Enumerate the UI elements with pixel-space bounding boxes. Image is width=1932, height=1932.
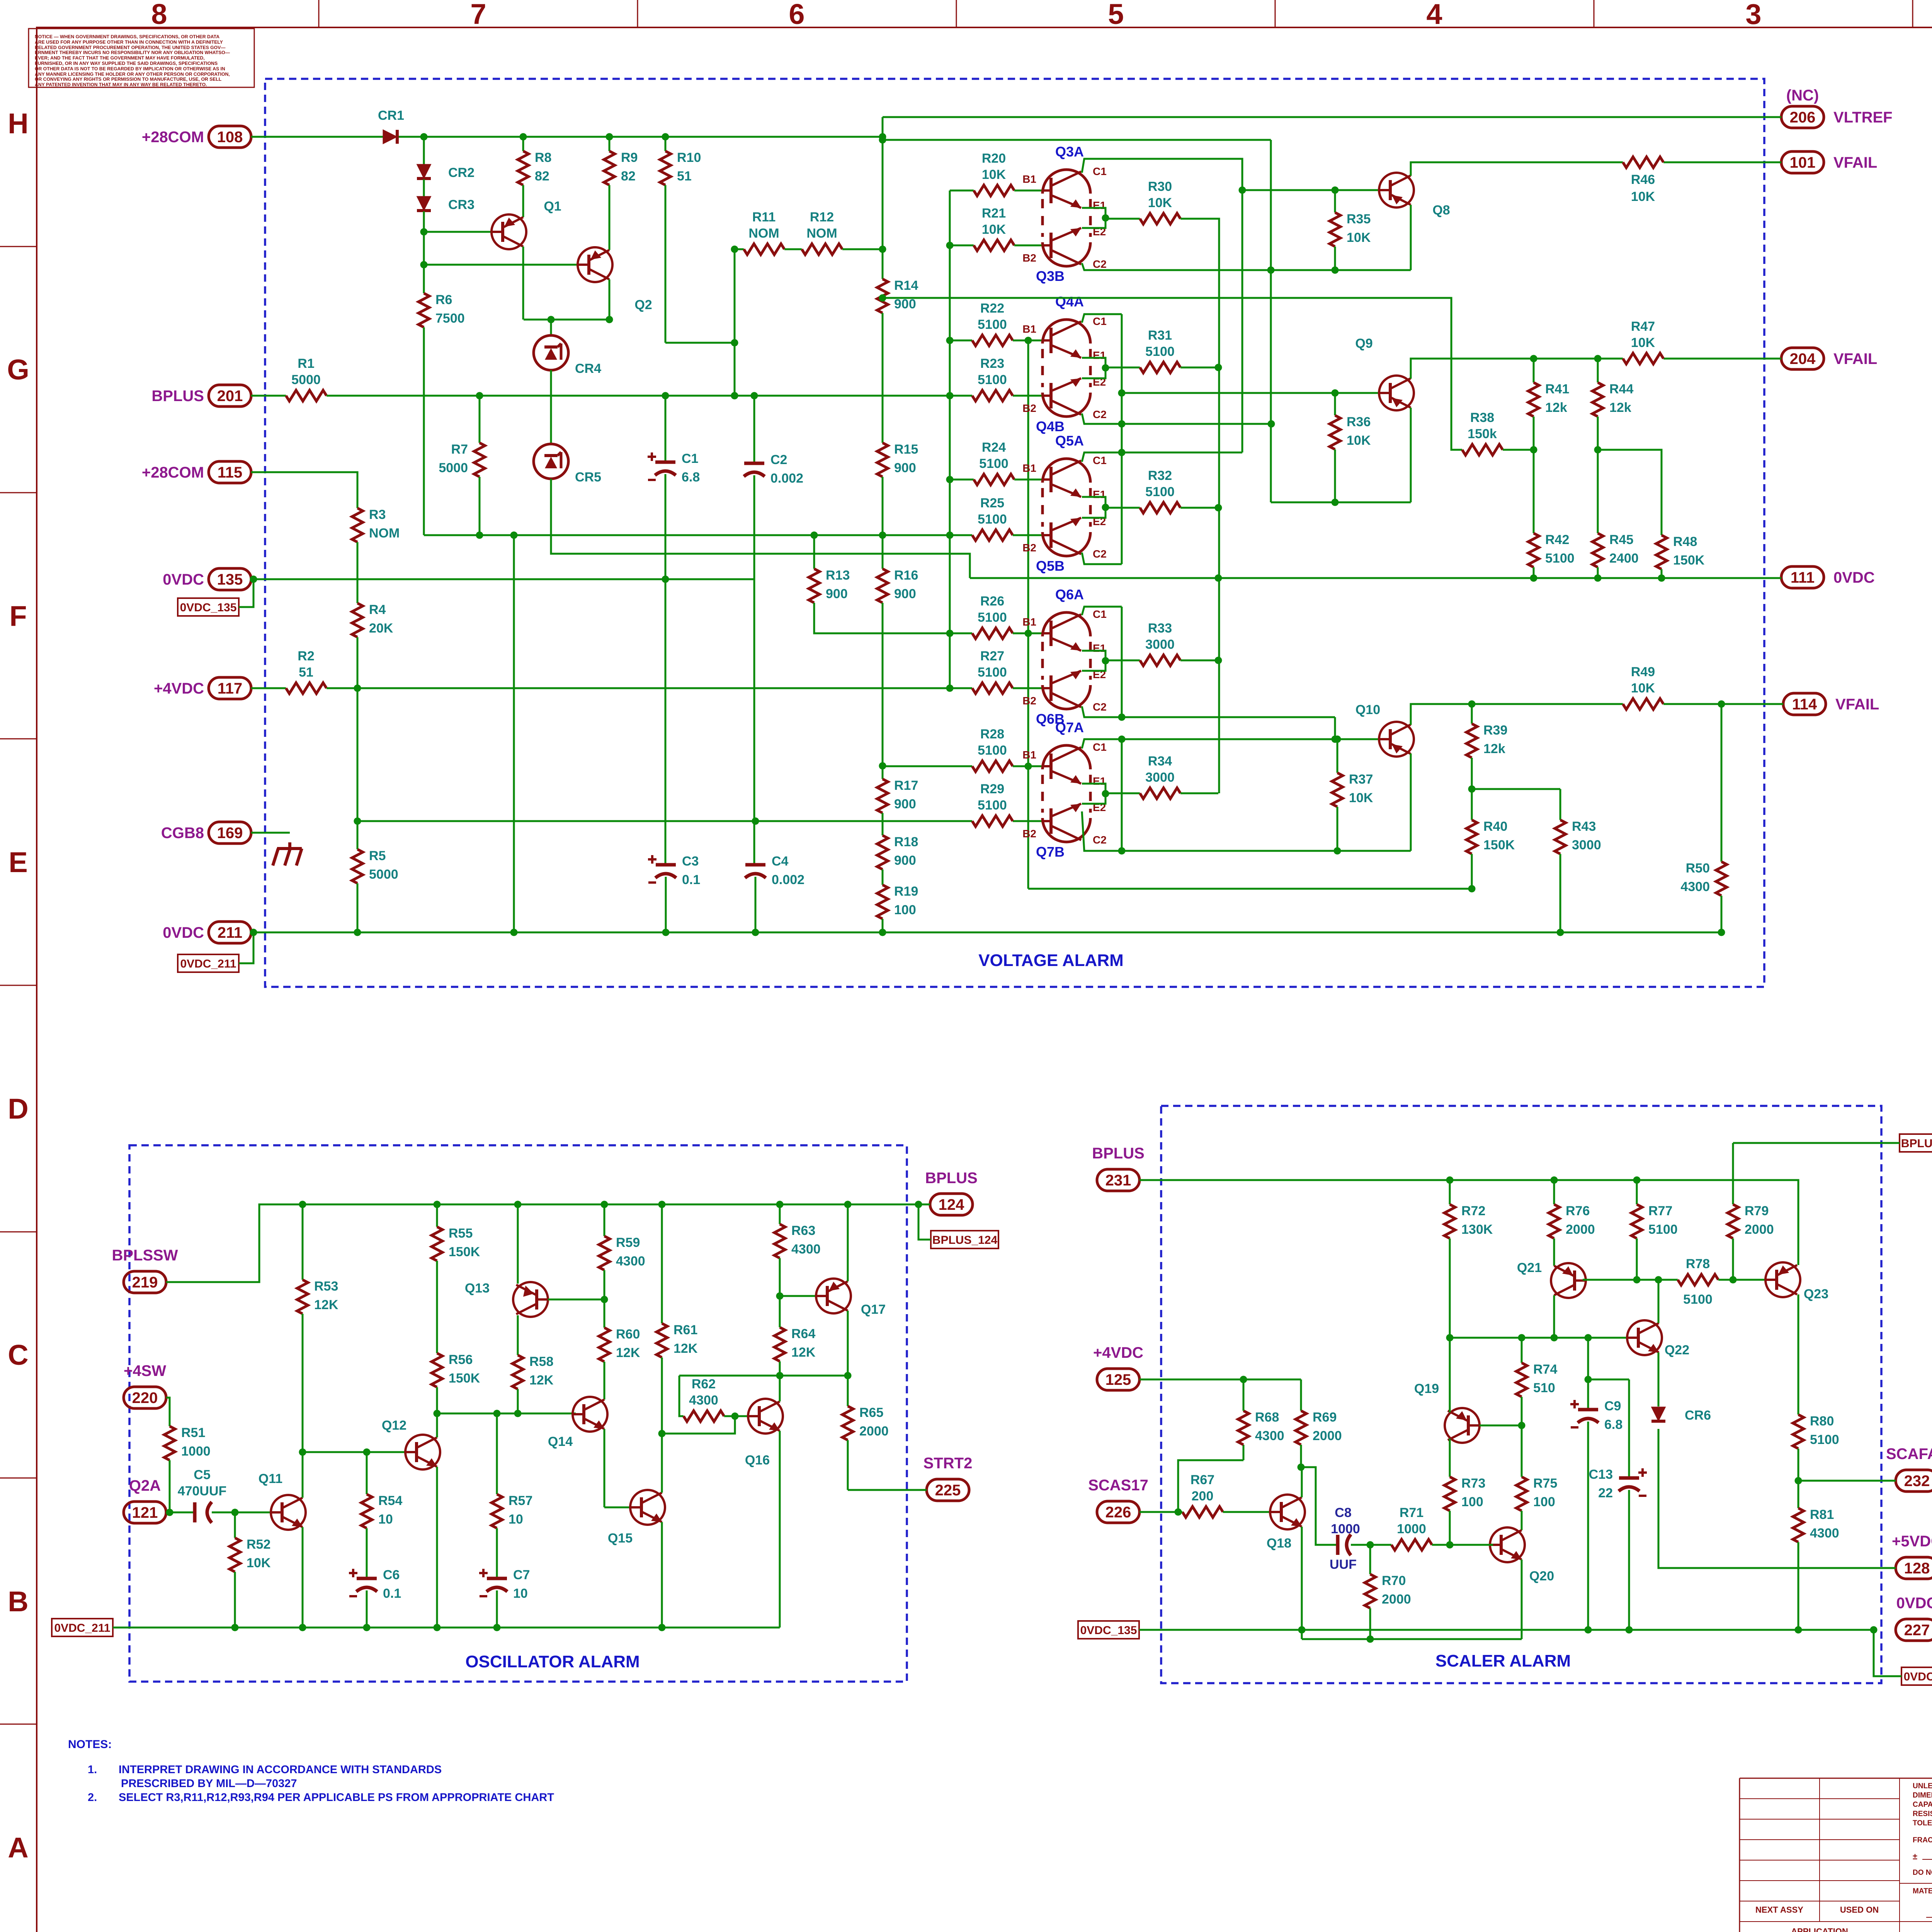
svg-text:20K: 20K [369, 621, 393, 636]
wire [1636, 1238, 1638, 1280]
junction [1175, 1509, 1182, 1516]
svg-text:R27: R27 [980, 649, 1004, 663]
junction [1367, 1636, 1374, 1643]
junction [1655, 1276, 1662, 1284]
svg-text:VOLTAGE ALARM: VOLTAGE ALARM [978, 951, 1124, 970]
svg-text:232: 232 [1904, 1473, 1930, 1490]
wire [1636, 1180, 1638, 1204]
svg-text:+28COM: +28COM [142, 464, 204, 481]
resistor R46 [1623, 157, 1663, 168]
svg-text:R77: R77 [1648, 1204, 1672, 1218]
wire [1013, 765, 1044, 767]
wire [1798, 1264, 1799, 1266]
wire [496, 1413, 498, 1494]
transistor Q11 [271, 1495, 306, 1530]
resistor R36 [1330, 415, 1340, 449]
transistor Q23 [1765, 1262, 1800, 1297]
svg-text:R72: R72 [1461, 1204, 1485, 1218]
svg-text:82: 82 [535, 169, 549, 184]
svg-text:R4: R4 [369, 602, 386, 617]
wire to Q8 base [1242, 189, 1378, 191]
svg-text:10K: 10K [1349, 791, 1373, 805]
svg-text:0VDC: 0VDC [163, 924, 204, 941]
wire [366, 1590, 368, 1628]
svg-text:DO NOT SCALE THIS DRAWING: DO NOT SCALE THIS DRAWING [1913, 1869, 1932, 1877]
svg-text:NOTES:: NOTES: [68, 1738, 112, 1751]
junction [731, 339, 738, 347]
wire [847, 1376, 849, 1406]
wire [423, 137, 425, 165]
resistor R30 [1140, 213, 1180, 224]
wire [1369, 1608, 1371, 1639]
wire R29 row [357, 820, 972, 822]
wire Q14 emitter [604, 1429, 605, 1507]
svg-text:R2: R2 [298, 649, 314, 663]
svg-text:CAPACITOR VALUES ARE IN uF: CAPACITOR VALUES ARE IN uF [1913, 1801, 1932, 1809]
svg-text:0VDC_211: 0VDC_211 [180, 957, 236, 970]
svg-text:R53: R53 [314, 1279, 338, 1294]
resistor R17 [877, 779, 888, 813]
wire BPLUS row [1139, 1180, 1798, 1265]
junction [946, 685, 954, 692]
svg-text:211: 211 [218, 924, 243, 941]
svg-text:E1: E1 [1093, 642, 1106, 654]
svg-text:5100: 5100 [1145, 344, 1175, 359]
wire [423, 179, 425, 197]
junction [1468, 701, 1476, 708]
resistor R13 [809, 569, 820, 603]
connector pad 204 [1781, 348, 1824, 369]
junction [1332, 267, 1339, 274]
wire [950, 479, 974, 481]
svg-text:219: 219 [132, 1274, 158, 1291]
wire Q7 C1 to Q10 base [1082, 739, 1378, 748]
svg-text:226: 226 [1105, 1504, 1131, 1521]
junction [250, 929, 257, 936]
wire [1301, 1630, 1303, 1639]
svg-text:BPLUS_124: BPLUS_124 [1901, 1137, 1932, 1150]
wire [1533, 359, 1535, 383]
svg-text:R8: R8 [535, 150, 551, 165]
wire [1471, 704, 1473, 724]
junction [1118, 736, 1126, 743]
transistor Q2 [578, 247, 612, 282]
svg-text:CR3: CR3 [448, 197, 474, 212]
resistor R6 [418, 293, 429, 327]
junction [1557, 929, 1564, 936]
wire Q18 emitter [1301, 1527, 1303, 1630]
transistor Q18 [1270, 1495, 1305, 1529]
svg-text:R47: R47 [1631, 319, 1655, 334]
svg-text:R60: R60 [616, 1327, 640, 1342]
junction [1118, 714, 1126, 721]
wire Q4 C2 [1082, 413, 1271, 424]
svg-text:E1: E1 [1093, 199, 1106, 211]
wire [1658, 1429, 1680, 1568]
svg-text:150K: 150K [449, 1371, 480, 1386]
svg-text:Q5A: Q5A [1055, 433, 1084, 449]
wire +28COM 115 [251, 472, 357, 508]
svg-text:R26: R26 [980, 594, 1004, 609]
wire [1180, 367, 1218, 369]
svg-text:Q2A: Q2A [129, 1477, 161, 1494]
svg-text:C3: C3 [682, 854, 699, 869]
wire [1471, 854, 1473, 889]
zone tick left [0, 738, 37, 740]
wire [1180, 793, 1218, 794]
svg-text:R65: R65 [859, 1405, 883, 1420]
svg-text:R23: R23 [980, 356, 1004, 371]
wire [779, 1204, 781, 1224]
svg-text:F: F [9, 600, 27, 632]
svg-text:R7: R7 [451, 442, 468, 457]
svg-text:4300: 4300 [1680, 879, 1710, 894]
svg-text:Q10: Q10 [1355, 702, 1380, 717]
transistor Q9 [1379, 376, 1414, 410]
junction [752, 929, 759, 936]
junction [1518, 1334, 1526, 1342]
wire [1721, 896, 1723, 932]
svg-text:121: 121 [132, 1504, 158, 1521]
svg-text:0.1: 0.1 [682, 872, 700, 887]
resistor R53 [297, 1280, 308, 1314]
svg-text:227: 227 [1904, 1622, 1930, 1639]
wire [496, 1590, 498, 1628]
svg-text:R22: R22 [980, 301, 1004, 316]
wire [755, 877, 757, 932]
wire [1521, 1397, 1523, 1425]
svg-text:6: 6 [789, 0, 804, 30]
resistor R10 [660, 151, 671, 185]
svg-text:6.8: 6.8 [1604, 1417, 1622, 1432]
wire [1013, 820, 1044, 822]
capacitor C8 [1336, 1535, 1340, 1555]
junction [946, 392, 954, 400]
wire 0VDC rail [251, 932, 1721, 934]
junction [776, 1201, 784, 1208]
wire BPLUS rail [166, 1204, 930, 1282]
wire Q19 emitter riser [1449, 1338, 1451, 1412]
svg-text:5100: 5100 [1648, 1222, 1678, 1237]
svg-text:R45: R45 [1609, 532, 1633, 547]
oscillator alarm block boundary [129, 1145, 907, 1682]
svg-text:OR CONVEYING ANY RIGHTS OR PER: OR CONVEYING ANY RIGHTS OR PERMISSION TO… [35, 77, 222, 82]
resistor R24 [974, 474, 1014, 485]
svg-text:VFAIL: VFAIL [1835, 696, 1879, 713]
svg-text:R30: R30 [1148, 179, 1172, 194]
junction [1215, 364, 1222, 371]
dual transistor Q6A/Q6B [1043, 612, 1090, 636]
wire [724, 1415, 751, 1417]
wire [423, 327, 425, 535]
junction [548, 316, 555, 323]
wire [882, 869, 884, 885]
svg-text:R35: R35 [1347, 212, 1371, 226]
wire Q2 base [424, 264, 578, 266]
wire Q18 collector [1301, 1467, 1303, 1497]
svg-text:CR2: CR2 [448, 165, 474, 180]
junction [363, 1449, 371, 1456]
junction [776, 1372, 784, 1379]
svg-text:R46: R46 [1631, 172, 1655, 187]
junction [434, 1201, 441, 1208]
resistor R32 [1140, 502, 1180, 513]
svg-text:E1: E1 [1093, 349, 1106, 361]
transistor Q10 [1379, 722, 1414, 757]
svg-text:+4SW: +4SW [124, 1362, 166, 1379]
wire [1449, 1511, 1451, 1545]
svg-text:A: A [8, 1832, 28, 1864]
svg-text:BPLUS: BPLUS [151, 388, 204, 405]
svg-text:10: 10 [378, 1512, 393, 1527]
svg-text:R20: R20 [982, 151, 1006, 166]
svg-text:R74: R74 [1533, 1362, 1557, 1377]
wire [1270, 140, 1272, 502]
svg-text:Q23: Q23 [1804, 1287, 1828, 1301]
diode CR3 [417, 197, 430, 210]
svg-text:ERNMENT THEREBY INCURS NO RESP: ERNMENT THEREBY INCURS NO RESPONSIBILITY… [35, 50, 230, 55]
junction [354, 818, 361, 825]
wire Q1 base [424, 231, 493, 233]
resistor R1 [286, 390, 327, 401]
svg-text:201: 201 [217, 388, 243, 405]
svg-text:B2: B2 [1022, 402, 1036, 414]
wire +4SW [166, 1398, 170, 1426]
junction [731, 392, 738, 400]
svg-text:7: 7 [470, 0, 486, 30]
svg-text:D: D [8, 1093, 28, 1125]
resistor R37 [1332, 773, 1343, 807]
svg-text:4300: 4300 [791, 1242, 821, 1257]
wire Q3 C2 row [1082, 263, 1411, 270]
svg-text:B1: B1 [1022, 462, 1036, 474]
svg-text:CR5: CR5 [575, 470, 601, 485]
svg-text:R38: R38 [1470, 410, 1494, 425]
svg-text:900: 900 [894, 797, 916, 811]
wire [1105, 367, 1140, 369]
junction [946, 630, 954, 637]
svg-text:R44: R44 [1609, 382, 1633, 396]
svg-text:3000: 3000 [1145, 637, 1175, 652]
svg-text:150k: 150k [1468, 427, 1497, 441]
capacitor C7 [487, 1577, 507, 1580]
svg-text:CR1: CR1 [378, 108, 404, 123]
transistor Q13 (PNP) [513, 1282, 548, 1317]
svg-text:4300: 4300 [1810, 1526, 1839, 1541]
svg-text:R69: R69 [1313, 1410, 1337, 1425]
capacitor C2 [744, 462, 764, 465]
svg-text:B: B [8, 1585, 28, 1617]
junction [1730, 1276, 1737, 1284]
svg-text:R33: R33 [1148, 621, 1172, 636]
svg-text:10K: 10K [1631, 681, 1655, 696]
wire emitters Q5A/Q5B [1082, 497, 1105, 518]
resistor R72 [1444, 1204, 1455, 1238]
connector pad 227 [1896, 1619, 1932, 1641]
dual transistor Q4A/Q4B [1043, 320, 1090, 344]
wire [950, 633, 972, 634]
resistor R63 [774, 1224, 785, 1258]
svg-text:R28: R28 [980, 727, 1004, 742]
wire [679, 1376, 684, 1416]
svg-text:1000: 1000 [1331, 1522, 1360, 1536]
svg-text:8: 8 [151, 0, 167, 30]
svg-text:USED ON: USED ON [1840, 1905, 1879, 1915]
svg-text:R81: R81 [1810, 1507, 1834, 1522]
wire [1105, 507, 1140, 509]
global label 0VDC_211 [52, 1619, 113, 1636]
junction [662, 576, 669, 583]
resistor R42 [1528, 533, 1539, 567]
wire VLTREF row [883, 116, 1781, 118]
junction [946, 337, 954, 344]
junction [520, 133, 527, 141]
government notice box [29, 29, 254, 87]
junction [250, 576, 257, 583]
wire Q20 emitter [1521, 1560, 1523, 1639]
svg-text:R32: R32 [1148, 468, 1172, 483]
junction [731, 392, 738, 400]
junction [1585, 1626, 1592, 1634]
wire [779, 1361, 781, 1376]
wire [1628, 1379, 1630, 1478]
resistor R31 [1140, 362, 1180, 373]
dual transistor Q5A/Q5B [1043, 459, 1090, 483]
svg-text:B1: B1 [1022, 616, 1036, 628]
svg-text:E1: E1 [1093, 775, 1106, 787]
svg-text:0VDC_135: 0VDC_135 [1080, 1624, 1137, 1637]
svg-text:0.1: 0.1 [383, 1586, 401, 1601]
junction [662, 392, 669, 400]
wire [1798, 1449, 1799, 1481]
wire Q11 emitter [302, 1527, 304, 1628]
connector pad 115 [209, 461, 251, 483]
svg-text:R61: R61 [673, 1323, 697, 1337]
global label 0VDC_135 [178, 598, 239, 616]
connector pad 225 [927, 1479, 969, 1501]
transistor Q22 [1627, 1320, 1662, 1355]
wire CR5 to bus [551, 479, 970, 578]
wire [1334, 449, 1336, 502]
svg-text:100: 100 [894, 903, 916, 917]
svg-text:R49: R49 [1631, 665, 1655, 679]
svg-text:FURNISHED, OR IN ANY WAY SUPPL: FURNISHED, OR IN ANY WAY SUPPLIED THE SA… [35, 61, 218, 66]
svg-text:R5: R5 [369, 849, 386, 863]
svg-text:5100: 5100 [978, 665, 1007, 680]
wire [1663, 358, 1781, 360]
junction [751, 392, 758, 400]
junction [1468, 786, 1476, 793]
svg-text:B2: B2 [1022, 542, 1036, 554]
connector pad 111 [1781, 566, 1824, 588]
junction [1334, 736, 1341, 743]
wire [357, 688, 359, 849]
svg-text:C2: C2 [1093, 701, 1107, 713]
wire [1587, 1422, 1589, 1630]
svg-text:0VDC_135: 0VDC_135 [180, 601, 237, 614]
svg-text:BPLUS_124: BPLUS_124 [932, 1234, 998, 1247]
svg-text:BPLSSW: BPLSSW [112, 1247, 178, 1264]
resistor R3 [352, 508, 363, 542]
wire [437, 1413, 576, 1415]
wire emitters Q3A/Q3B [1082, 208, 1105, 228]
svg-text:2000: 2000 [1382, 1592, 1411, 1607]
svg-text:Q16: Q16 [745, 1453, 770, 1468]
connector pad 121 [124, 1502, 166, 1523]
junction [879, 762, 886, 770]
wire [753, 475, 755, 865]
capacitor C13 [1619, 1476, 1639, 1480]
wire [1450, 1337, 1630, 1339]
svg-text:H: H [8, 107, 28, 139]
resistor R5 [352, 849, 363, 883]
svg-text:C1: C1 [1093, 315, 1107, 327]
wire [1521, 1425, 1523, 1477]
svg-text:R24: R24 [982, 440, 1006, 455]
svg-text:R34: R34 [1148, 754, 1172, 769]
wire [479, 396, 481, 443]
resistor R65 [842, 1406, 853, 1440]
wire [1588, 1379, 1629, 1381]
wire +28COM 108 [251, 136, 384, 138]
svg-text:R43: R43 [1572, 819, 1596, 834]
svg-text:R11: R11 [752, 210, 776, 224]
junction [731, 246, 738, 253]
svg-text:G: G [7, 354, 29, 386]
zener diode CR5 [534, 444, 568, 479]
wire Q1 emitter [522, 247, 524, 320]
svg-text:204: 204 [1790, 350, 1816, 367]
resistor R21 [974, 240, 1014, 251]
junction [1658, 575, 1665, 582]
svg-text:R37: R37 [1349, 772, 1373, 787]
wire [1721, 704, 1723, 862]
wire [234, 1512, 236, 1538]
svg-text:6.8: 6.8 [682, 470, 700, 485]
wire [882, 919, 884, 932]
wire [604, 1204, 605, 1236]
svg-text:0VDC_211: 0VDC_211 [54, 1622, 110, 1634]
svg-text:Q5B: Q5B [1036, 558, 1065, 574]
zone tick left [0, 492, 37, 493]
wire [1223, 1511, 1273, 1513]
svg-text:101: 101 [1790, 154, 1816, 171]
svg-text:12K: 12K [529, 1373, 554, 1388]
junction [1239, 187, 1246, 194]
svg-text:5100: 5100 [978, 798, 1007, 813]
resistor R67 [1182, 1507, 1223, 1517]
zone tick left [0, 1231, 37, 1233]
zone tick top [1912, 0, 1913, 27]
svg-text:C4: C4 [772, 854, 789, 869]
transistor Q12 [405, 1435, 440, 1469]
junction [354, 929, 361, 936]
wire 0VDC row [1139, 1629, 1874, 1631]
wire [1013, 340, 1044, 342]
svg-text:10K: 10K [1631, 189, 1655, 204]
wire to Q9 base [1122, 392, 1378, 394]
svg-text:OSCILLATOR ALARM: OSCILLATOR ALARM [465, 1652, 639, 1671]
svg-text:4300: 4300 [689, 1393, 718, 1408]
wire [1180, 507, 1218, 509]
svg-text:C2: C2 [1093, 408, 1107, 420]
wire Q12 collector [436, 1413, 438, 1437]
svg-text:0.002: 0.002 [770, 471, 803, 486]
junction [776, 1293, 784, 1300]
wire Q8 emitter [1410, 205, 1412, 270]
svg-text:R39: R39 [1483, 723, 1507, 738]
wire [882, 813, 884, 835]
